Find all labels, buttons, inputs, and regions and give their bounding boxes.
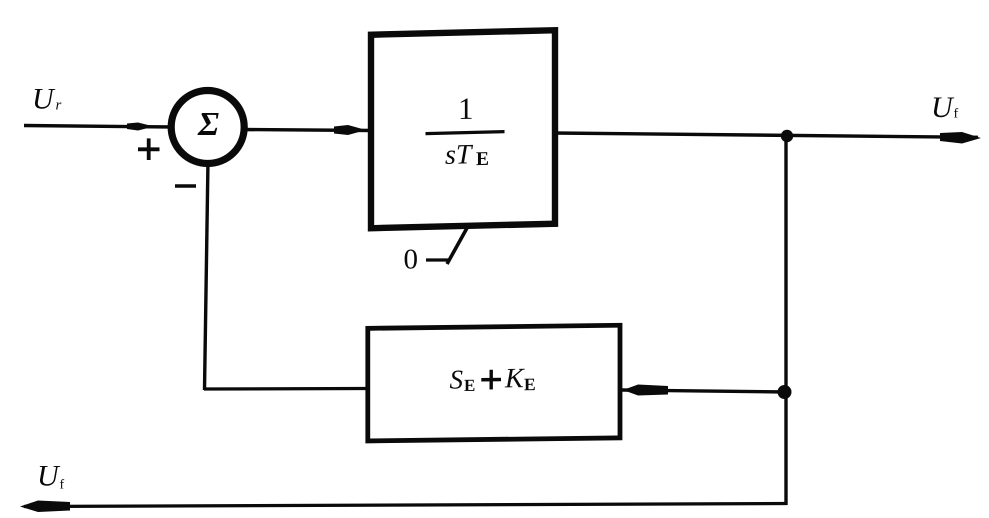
block 1/sTE (371, 30, 555, 228)
wire input Ur to summing junction (24, 126, 175, 128)
arrowhead into summing junction (127, 123, 154, 131)
wire bottom from right vertical to Uf arrow (24, 504, 787, 507)
svg-text:Σ: Σ (197, 106, 219, 143)
wire vertical from summing junction down to feedback line (205, 160, 209, 390)
svg-text:E: E (464, 376, 475, 395)
summing junction (171, 91, 244, 164)
wire summing junction to block 1/sTE (240, 130, 372, 131)
wire feedback block output to left vertical (204, 387, 367, 391)
minus sign (175, 184, 196, 187)
arrowhead into feedback block (623, 385, 668, 396)
node junction feeding feedback block (778, 385, 792, 399)
node Uf bottom label (37, 460, 65, 493)
svg-text:f: f (954, 107, 959, 122)
svg-text:U: U (32, 83, 56, 116)
arrowhead bottom Uf pointing left (20, 501, 70, 513)
svg-text:S: S (450, 364, 464, 394)
svg-text:K: K (504, 363, 525, 394)
node Ur input label (32, 83, 62, 116)
svg-text:E: E (524, 374, 536, 394)
svg-text:E: E (476, 149, 489, 170)
svg-text:0: 0 (404, 244, 419, 276)
feedback block SE+KE (368, 325, 620, 441)
arrowhead output Uf (940, 132, 981, 144)
svg-text:U: U (37, 460, 61, 493)
svg-text:sT: sT (445, 139, 474, 171)
svg-text:f: f (60, 478, 65, 493)
svg-text:r: r (56, 98, 62, 114)
svg-text:U: U (931, 91, 955, 124)
node junction on output wire (781, 130, 793, 142)
svg-text:1: 1 (458, 91, 473, 126)
limiter mark 0 below block 1/sTE (404, 228, 468, 276)
plus sign (138, 138, 160, 160)
wire right vertical from output junction down to bottom (784, 136, 787, 505)
arrowhead into block 1/sTE (334, 125, 366, 135)
wire output of block 1/sTE to Uf arrow (553, 133, 978, 137)
wire from right vertical into feedback block (622, 390, 786, 392)
node Uf output label (931, 91, 959, 124)
